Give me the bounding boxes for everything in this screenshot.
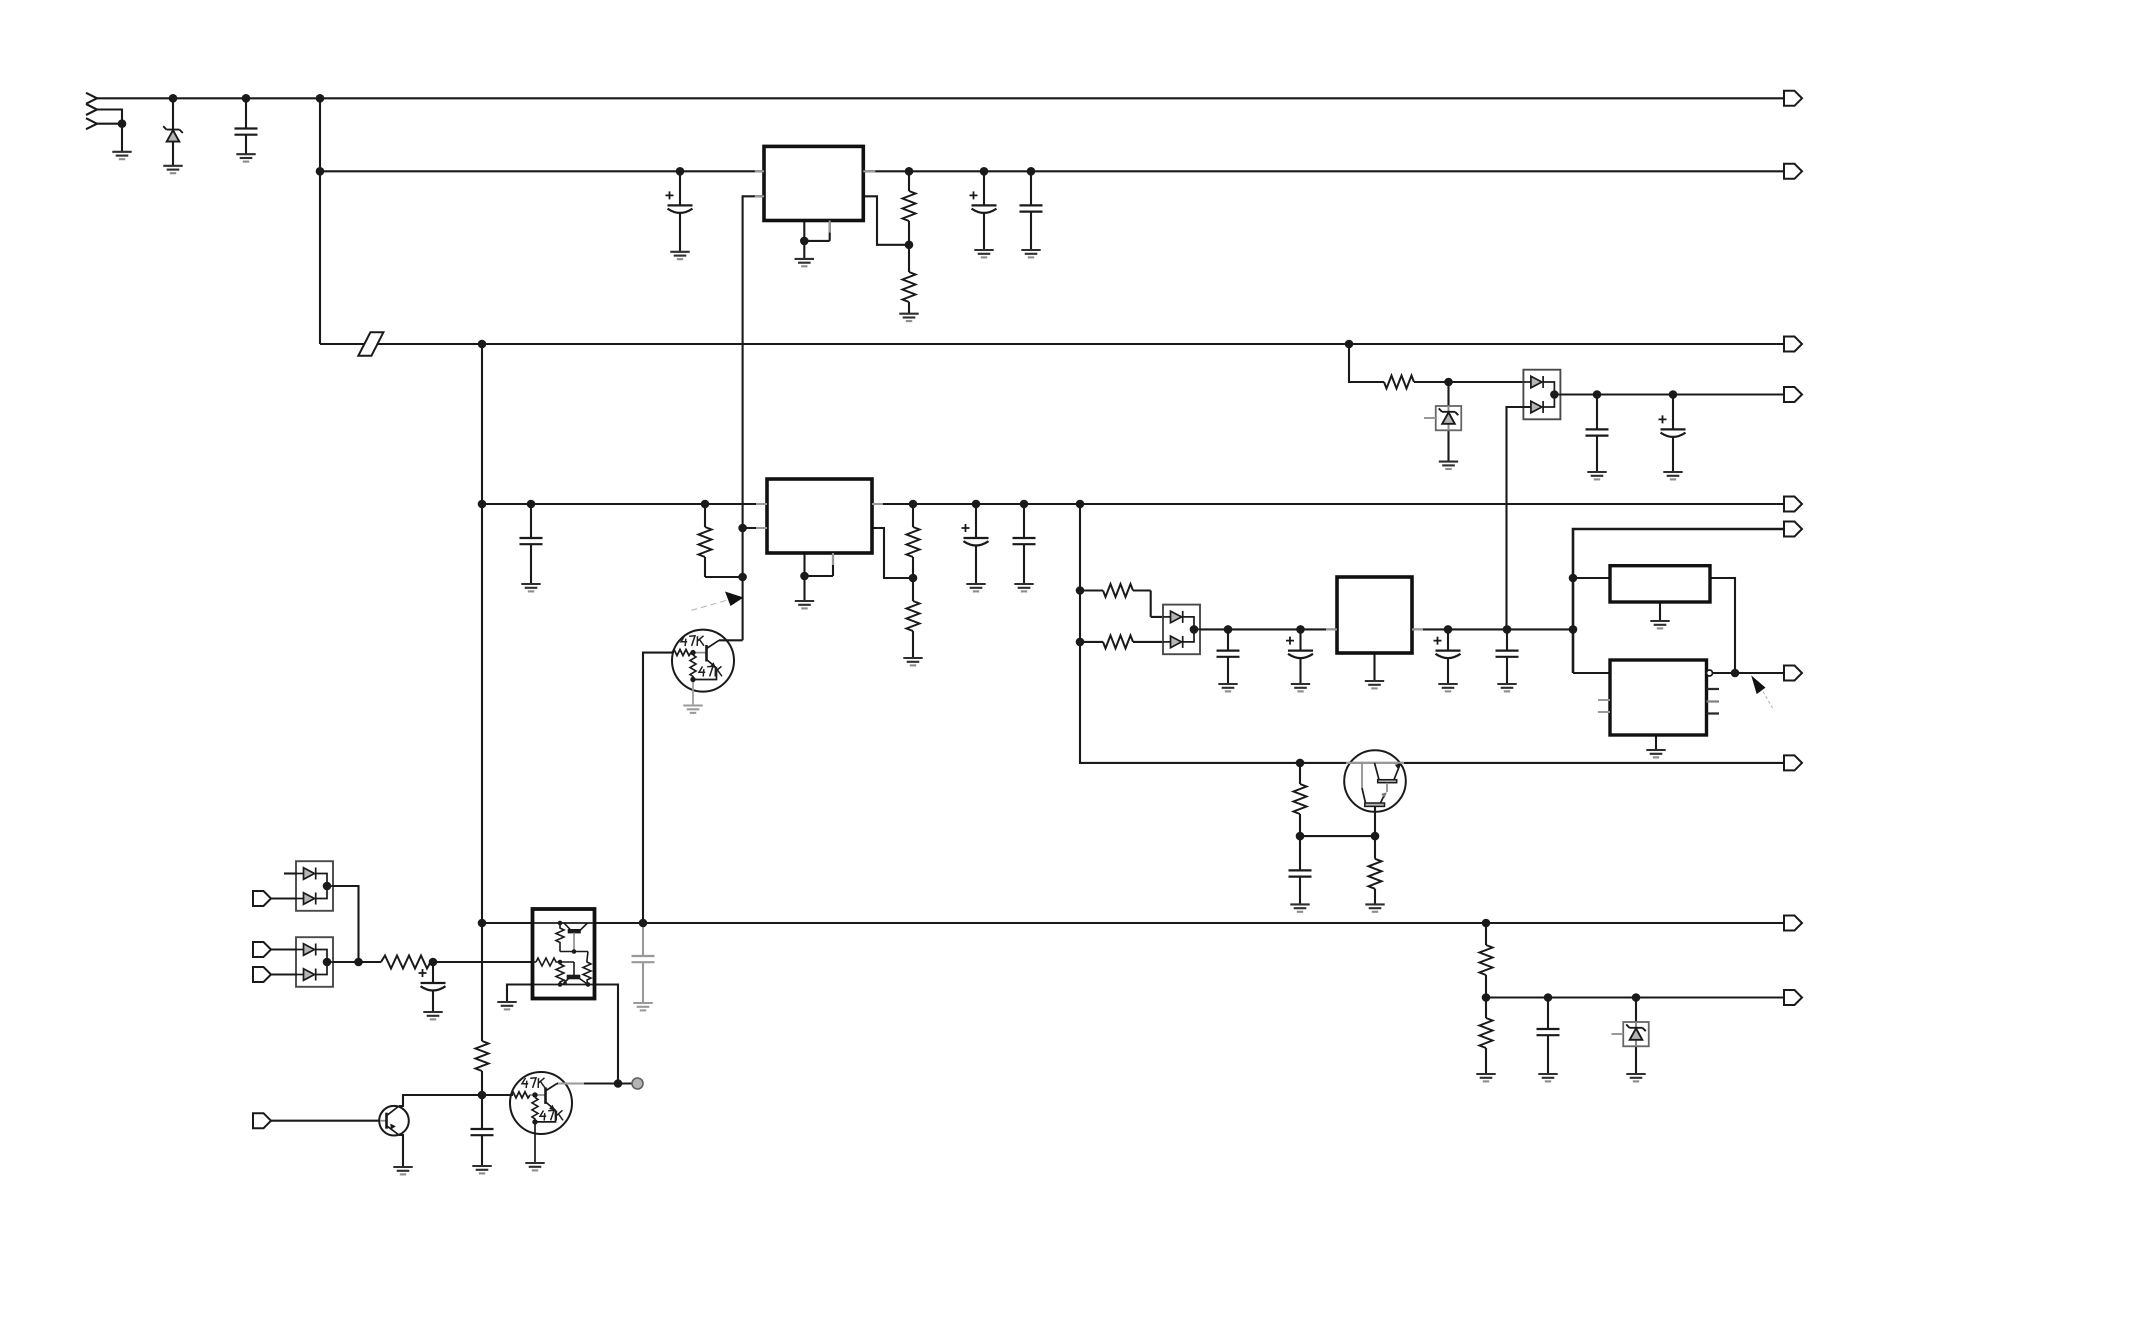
connector J1 pin2 chevron [86, 104, 97, 115]
wire U6 right pin down [594, 985, 618, 1084]
junction dot 50 [354, 958, 363, 967]
junction dot 12 [478, 340, 487, 349]
ic U4 [1610, 566, 1710, 602]
annotation cursor B [1751, 675, 1774, 710]
resistor R13 [476, 1041, 489, 1071]
junction dot 40 [1296, 832, 1305, 841]
wire J3 to D7 [271, 948, 297, 950]
wire U6 node rail upper [560, 951, 588, 953]
junction dot 44 [1482, 919, 1491, 928]
ground G22 [1497, 684, 1516, 691]
wire Q2 collector gray segment [558, 1082, 584, 1084]
junction dot 46 [1544, 993, 1553, 1002]
junction dot 19 [527, 500, 536, 509]
transistor Q3 internals [1362, 763, 1401, 836]
text Q2 47K lower [540, 1110, 563, 1120]
ground G1 [112, 152, 131, 159]
zener diode D5 boxed TVS [1612, 1022, 1649, 1046]
junction dot 6 [676, 167, 685, 176]
junction dot 15 [1550, 390, 1559, 399]
connector P9 out [1784, 916, 1802, 931]
wire bus B2 [320, 170, 1784, 172]
resistor R6 [907, 601, 920, 631]
ground G18 [1218, 684, 1237, 691]
resistor R1 [903, 191, 916, 221]
ground G25 [1290, 904, 1309, 911]
ground G16 [903, 658, 922, 665]
wire U5 ground pin [1655, 735, 1657, 750]
wire D6 anode stub [284, 872, 297, 874]
wire bus DCDC output [1412, 628, 1573, 630]
junction dot 24 [1076, 500, 1085, 509]
ground G11 [1663, 472, 1682, 479]
junction dot 23 [1020, 500, 1029, 509]
ground G15 [795, 601, 814, 608]
wire U3 gray stubs [1326, 628, 1423, 630]
ground G28 gray [633, 1003, 652, 1010]
wire cap C10 leads [1227, 629, 1229, 684]
capacitor C9 [1013, 538, 1036, 544]
wire bus B10 [1486, 996, 1784, 998]
junction dot 38 [1731, 669, 1740, 678]
resistor R11 [1480, 945, 1493, 975]
fuse F1 [358, 332, 383, 356]
wire cap C3 leads [983, 171, 985, 250]
junction dot 39 [1296, 759, 1305, 768]
resistor R2 [903, 272, 916, 302]
junction dot 51 [429, 958, 438, 967]
ground G34 [1538, 1074, 1557, 1081]
junction U6 dots [558, 921, 591, 987]
transistor Q1 internals [672, 640, 719, 705]
junction dot 5 [316, 167, 325, 176]
wire cap C1 leads [245, 98, 247, 154]
wire Q2 collector link [557, 1082, 632, 1084]
wire U2 gray stubs [756, 504, 883, 565]
wire U1 bottom pins to ground [804, 221, 829, 259]
connector J2 input [253, 891, 271, 906]
ground G26 [1365, 904, 1384, 911]
transistor Q4 PNP circle [379, 1106, 409, 1136]
resistor U6 R right [583, 952, 591, 985]
wire J2 to D6 [271, 897, 297, 899]
wire U6 bottom rail [533, 984, 595, 986]
connector J5 input [253, 1113, 271, 1128]
wire Q3 bus gray segment [1346, 762, 1404, 764]
pin U5 output bubble [1707, 670, 1713, 676]
transistor Q3 circle [1344, 750, 1406, 812]
wire U1 pin ADJ left [743, 196, 764, 640]
resistor R5 [907, 527, 920, 557]
wire R3 to DD3 [1414, 381, 1531, 383]
ground G14 [1014, 584, 1033, 591]
diode pair D6 [296, 861, 333, 911]
wire U6 base link [560, 962, 574, 976]
capacitor C10 [1217, 651, 1240, 657]
wire U4 ground pin [1659, 602, 1661, 621]
capacitor C1 [235, 129, 258, 135]
wire zener D1 leads [172, 98, 174, 166]
junction dot 42 [478, 919, 487, 928]
ground G13 [966, 584, 985, 591]
ground G32 [393, 1167, 412, 1174]
wire cap C2 leads [679, 171, 681, 252]
resistor R10 leads [1374, 836, 1376, 904]
junction dot 53 [614, 1079, 623, 1088]
transistor array U6 [533, 909, 595, 999]
wire cap C4 leads [1030, 171, 1032, 250]
wire R9 node link [1300, 835, 1375, 837]
resistor R14 [381, 956, 431, 969]
wire Q4 collector to rail [399, 1095, 482, 1106]
resistor R9 leads [1299, 763, 1301, 836]
connector P1 out [1784, 91, 1802, 106]
junction dot 2 [242, 94, 251, 103]
resistor R2 leads [908, 245, 910, 314]
ground G19 [1291, 684, 1310, 691]
junction dot 20 [701, 500, 710, 509]
ground G7 [974, 250, 993, 257]
resistor R4 leads [705, 504, 743, 577]
junction dot 3 [316, 94, 325, 103]
wire cap C9 leads [1023, 504, 1025, 584]
connector J4 input [253, 967, 271, 982]
junction dot 45 [1482, 993, 1491, 1002]
wire cap C11 leads [1299, 629, 1301, 684]
transistor U6 Q lower [563, 976, 589, 985]
zener diode D1 TVS [163, 126, 183, 141]
junction dot 26 [738, 573, 747, 582]
capacitor C15 gray [632, 956, 655, 962]
wire U6 internal top rail [533, 922, 595, 924]
junction dot 16 [1593, 390, 1602, 399]
wire U1 feedback right [863, 196, 909, 245]
junction dot 37 [1569, 574, 1578, 583]
capacitor C14 [1289, 870, 1312, 876]
resistor R6 leads [912, 578, 914, 658]
junction dot 29 [1076, 586, 1085, 595]
resistor R3 [1384, 376, 1414, 389]
ground G4 [670, 252, 689, 259]
capacitor C3 polarized [970, 191, 997, 213]
wire rail 1095 to Q2 [482, 1094, 513, 1096]
ground G27 [497, 1002, 516, 1009]
junction dot 32 [1224, 625, 1233, 634]
junction dot 33 [1296, 625, 1305, 634]
junction dot 52 [478, 1091, 487, 1100]
capacitor C16 [1537, 1029, 1560, 1035]
wire cap C7 leads [530, 504, 532, 584]
junction dot 47 [1632, 993, 1641, 1002]
connector P2 out [1784, 164, 1802, 179]
junction dot 18 [478, 500, 487, 509]
resistor R13 leads [481, 1071, 483, 1095]
wire cap C15 leads gray [642, 923, 644, 1003]
wire J1 pin2 to ground node [97, 110, 122, 124]
junction dot 43 [639, 919, 648, 928]
wire U3 ground pin [1373, 653, 1375, 681]
wire J5 to Q4 base [271, 1120, 380, 1122]
wire bus DCDC input [1200, 628, 1337, 630]
wire bus B4 [1560, 393, 1784, 395]
ground G12 [521, 584, 540, 591]
resistor R7 [1103, 584, 1133, 597]
wire U4 output down [1710, 578, 1735, 673]
wire U2 feedback right [872, 528, 913, 578]
wire cap C12 leads [1447, 629, 1449, 684]
ground G24 [1646, 750, 1665, 757]
connector P5 out [1784, 497, 1802, 512]
ground G6 [899, 314, 918, 321]
ground G3 [236, 154, 255, 161]
resistor R1 leads [908, 171, 910, 245]
wire TVS D5 leads [1635, 998, 1637, 1075]
ground G23 [1650, 621, 1669, 628]
junction dot 7 [905, 167, 914, 176]
wire cap C13 leads [1506, 629, 1508, 684]
regulator U1 [764, 146, 863, 220]
ground G8 [1021, 250, 1040, 257]
wire TVS D2 leads [1447, 382, 1449, 462]
capacitor C4 [1020, 205, 1043, 211]
capacitor C12 polarized [1434, 637, 1461, 659]
wire J4 to D7 [271, 973, 297, 975]
wire D6 output down [333, 886, 359, 962]
junction dot 34 [1444, 625, 1453, 634]
wire vertical 482 [481, 344, 483, 1041]
wire vertical 1506 to DCDC out [1507, 407, 1532, 629]
net dot NC gray circle [632, 1078, 643, 1089]
capacitor C2 polarized [666, 191, 693, 213]
resistor R8 [1103, 635, 1133, 648]
capacitor C8 polarized [962, 524, 989, 546]
wire cap C18 leads [432, 962, 434, 1012]
connector P10 out [1784, 990, 1802, 1005]
junction dot 10 [800, 237, 809, 246]
transistor Q2 internals [511, 1084, 557, 1164]
transistor Q4 internals [380, 1106, 399, 1135]
junction dot 9 [1027, 167, 1036, 176]
regulator U2 [767, 479, 872, 553]
wire bus B6 [1573, 529, 1784, 673]
junction dot 25 [738, 524, 747, 533]
capacitor C13 [1496, 651, 1519, 657]
connector P4 out [1784, 387, 1802, 402]
connector J3 input [253, 942, 271, 957]
wire U2 pin2 left [743, 527, 767, 529]
transistor Q1 47K circle [672, 630, 734, 692]
junction dot 17 [1669, 390, 1678, 399]
junction dot 41 [1371, 832, 1380, 841]
resistor R10 [1369, 859, 1382, 889]
wire Q1 base from 643 [643, 653, 672, 923]
connector P8 out [1784, 755, 1802, 770]
resistor R8 leads [1080, 641, 1171, 643]
junction dot 49 [323, 958, 332, 967]
junction dot 1 [169, 94, 178, 103]
wire U5 output B7 [1713, 672, 1785, 674]
wire R3 branch [1349, 344, 1384, 382]
wire cap C14 leads [1299, 836, 1301, 904]
wire U6 emitter pin left to ground [507, 985, 533, 1003]
wire cap C17 leads [481, 1095, 483, 1166]
capacitor C6 polarized [1659, 415, 1686, 437]
wire U1 gray stubs [755, 171, 876, 232]
wire U6 mid input [533, 961, 537, 963]
wire bus B1 VIN [97, 97, 1784, 99]
wire U5 stub pins gray [1598, 700, 1610, 712]
junction dot 27 [800, 572, 809, 581]
ground G30 [472, 1166, 491, 1173]
junction dot 48 [323, 882, 332, 891]
wire cap C16 leads [1547, 998, 1549, 1075]
ground G2 [163, 166, 182, 173]
resistor R9 [1294, 784, 1307, 814]
ground G9 [1439, 462, 1458, 469]
wire rail 962 [333, 961, 533, 963]
wire Q4 emitter to ground [399, 1135, 403, 1167]
resistor U6 R base [536, 958, 560, 966]
junction dot 30 [1076, 638, 1085, 647]
capacitor C7 [520, 538, 543, 544]
wire cap C6 leads [1672, 395, 1674, 473]
junction dot 4 [118, 119, 127, 128]
ground G17 gray [683, 706, 702, 713]
connector P6 out [1784, 522, 1802, 537]
wire vertical B1 to B3 [319, 98, 321, 344]
capacitor C17 [471, 1129, 494, 1135]
transistor U6 Q upper [564, 923, 588, 952]
resistor R12 leads [1485, 998, 1487, 1075]
junction dot 35 [1503, 625, 1512, 634]
ic U5 [1610, 660, 1707, 735]
text Q2 47K upper [522, 1078, 545, 1088]
annotation arrow A [689, 592, 744, 612]
wire bus B3 [320, 343, 1784, 345]
connector P3 out [1784, 337, 1802, 352]
text Q1 47K upper [681, 636, 704, 646]
connector P7 out [1784, 666, 1802, 681]
junction dot 8 [980, 167, 989, 176]
diode pair D3 [1523, 370, 1560, 420]
wire vertical 1080 [1080, 504, 1784, 763]
connector J1 pin1 chevron [86, 93, 97, 104]
zener diode D2 boxed TVS [1424, 406, 1461, 430]
connector J1 pin3 chevron [86, 118, 97, 129]
wire U5 input [1573, 672, 1610, 674]
capacitor C18 polarized [419, 969, 446, 991]
resistor U6 R upper [556, 923, 564, 952]
wire bus B9 [482, 922, 1784, 924]
ground G10 [1587, 472, 1606, 479]
ground G31 [525, 1163, 544, 1170]
resistor R11 leads [1485, 923, 1487, 998]
junction dot 14 [1444, 378, 1453, 387]
ground G21 [1438, 684, 1457, 691]
junction dot 11 [905, 241, 914, 250]
resistor R5 leads [912, 504, 914, 578]
junction dot 21 [909, 500, 918, 509]
junction dot 31 [1190, 625, 1199, 634]
ground G20 [1365, 681, 1384, 688]
transistor Q2 47K circle [510, 1072, 572, 1134]
ground G35 [1626, 1074, 1645, 1081]
junction dot 13 [1345, 340, 1354, 349]
wire U2 bottom pins to ground [805, 553, 834, 601]
wire U4 input [1573, 577, 1610, 579]
resistor R4 [699, 527, 712, 557]
ground G5 [795, 259, 814, 266]
wire Q1 collector link [719, 639, 743, 641]
wire J1 pin3 to ground node [97, 124, 122, 152]
capacitor C11 polarized [1286, 637, 1313, 659]
junction dot 22 [972, 500, 981, 509]
diode pair D7 [296, 937, 333, 987]
diode pair D4 [1163, 605, 1200, 655]
dcdc converter U3 [1337, 577, 1412, 653]
wire cap C8 leads [975, 504, 977, 584]
resistor U6 R lower [556, 962, 564, 985]
resistor R7 leads [1080, 591, 1171, 617]
wire bus B5 [482, 503, 1784, 505]
ground G29 [423, 1012, 442, 1019]
junction dot 36 [1569, 625, 1578, 634]
junction dot 28 [909, 574, 918, 583]
text Q1 47K lower [699, 666, 722, 676]
capacitor C5 [1586, 429, 1609, 435]
ground G33 [1476, 1074, 1495, 1081]
wire cap C5 leads [1596, 395, 1598, 473]
resistor R12 [1480, 1018, 1493, 1048]
